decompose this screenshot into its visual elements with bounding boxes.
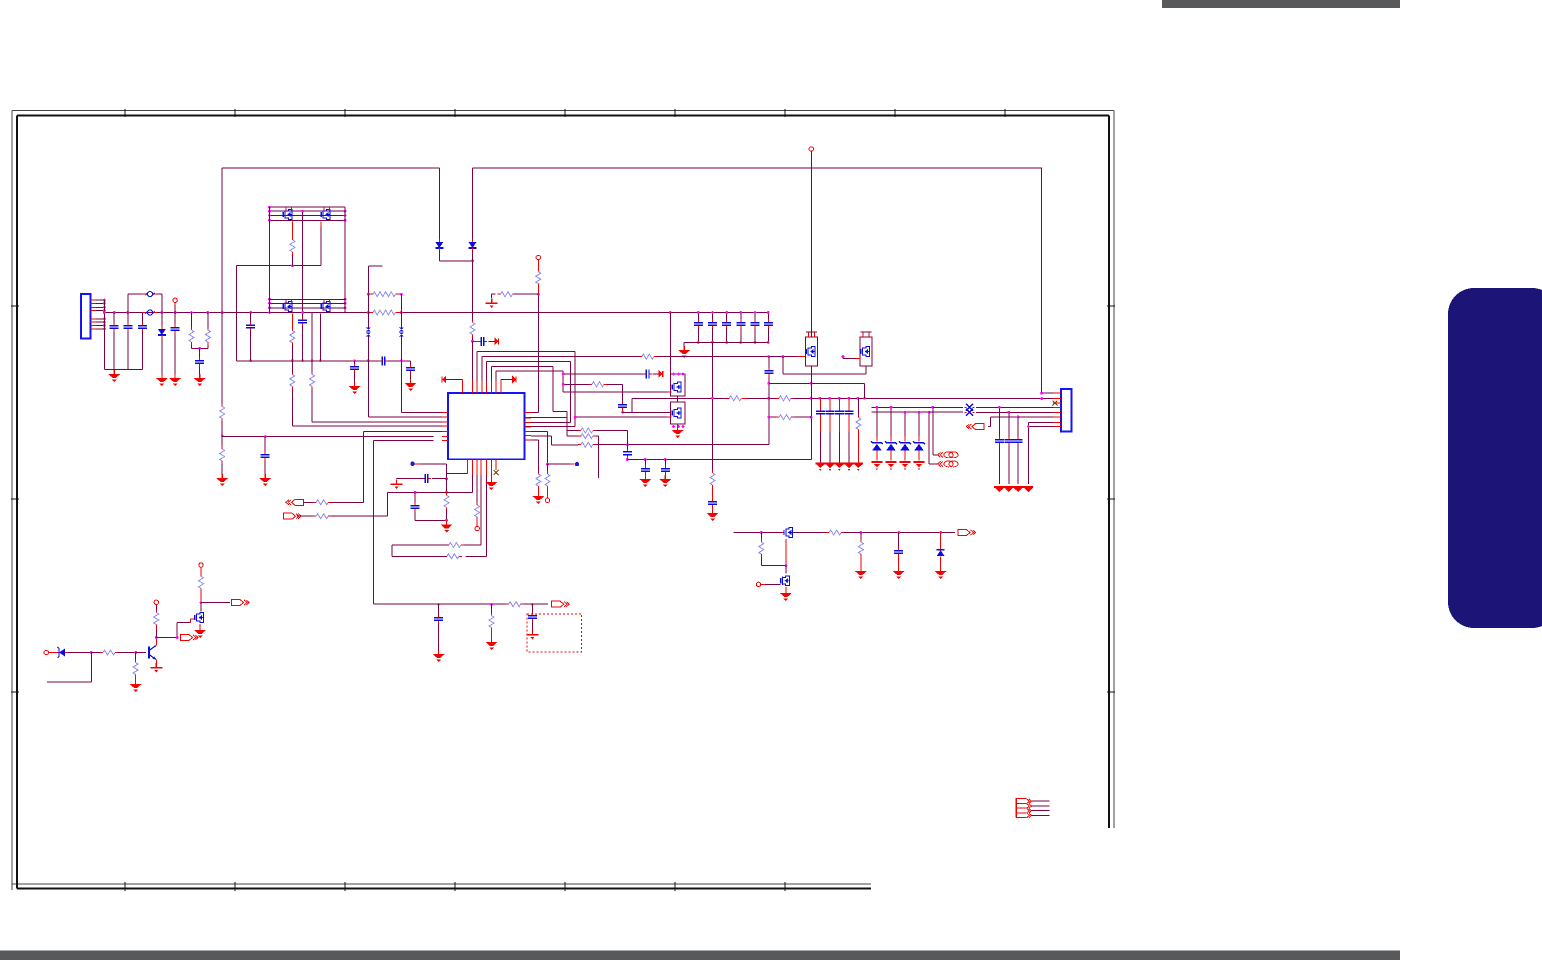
cap rail xyxy=(1008,412,1010,438)
wire xyxy=(860,533,862,540)
resistor R xyxy=(133,660,138,678)
wire xyxy=(761,557,786,566)
cap rail xyxy=(998,407,1000,438)
drain net xyxy=(201,602,230,604)
terminal right xyxy=(181,635,199,641)
junction xyxy=(626,458,629,461)
J1 pin bus xyxy=(103,300,105,369)
zener Z xyxy=(913,441,925,452)
wire xyxy=(768,377,770,399)
npn Q9 xyxy=(149,646,156,660)
lo-side bus xyxy=(270,307,346,309)
wire xyxy=(644,475,646,478)
wire xyxy=(940,533,942,549)
IC right pin xyxy=(525,411,532,413)
fet drain stubs xyxy=(286,207,330,210)
junctions xyxy=(301,210,304,314)
J2 pin xyxy=(1053,398,1061,400)
wire xyxy=(904,412,906,436)
wire xyxy=(495,459,497,470)
pin436 wire xyxy=(222,436,433,438)
no-connect x xyxy=(494,470,499,475)
wire xyxy=(876,436,878,442)
wire xyxy=(490,381,492,393)
res-cap line xyxy=(607,384,623,403)
wire xyxy=(808,332,810,337)
capacitor C xyxy=(618,402,627,411)
junction xyxy=(928,411,931,414)
IC right pin xyxy=(525,439,532,441)
wire xyxy=(481,381,483,393)
wire xyxy=(439,251,472,261)
capacitor C xyxy=(195,358,204,367)
fet drain stubs2 xyxy=(286,299,330,302)
long398 xyxy=(632,397,726,399)
wire xyxy=(250,313,252,325)
hi-side bus xyxy=(270,215,346,217)
pin435 wire xyxy=(531,436,578,445)
resistor R xyxy=(759,539,764,557)
wire xyxy=(199,367,201,375)
cap rail xyxy=(1017,417,1019,439)
wire xyxy=(155,630,157,638)
collector xyxy=(155,638,157,646)
pin472 wire xyxy=(387,475,472,516)
resistor R xyxy=(578,434,596,439)
nest wire xyxy=(490,367,492,381)
capacitor C xyxy=(422,474,431,483)
wire xyxy=(155,628,157,630)
wire xyxy=(96,302,104,304)
fuse F2 xyxy=(143,310,158,315)
IC left pin xyxy=(442,436,448,438)
cap627 wire xyxy=(626,458,628,460)
block outline R xyxy=(344,207,346,312)
wire xyxy=(644,460,646,468)
block outline L xyxy=(269,207,271,312)
pin439 wire xyxy=(531,440,538,471)
capacitor C xyxy=(845,408,854,417)
junction xyxy=(931,406,934,409)
wire xyxy=(697,313,699,322)
wire xyxy=(476,475,478,502)
wire xyxy=(754,329,756,343)
wire xyxy=(712,313,714,322)
terminal circle xyxy=(756,582,760,586)
ground xyxy=(486,638,498,650)
wire xyxy=(848,417,850,432)
mosfet Q6 xyxy=(672,408,681,418)
wire xyxy=(862,332,864,337)
junction xyxy=(785,564,788,567)
bead rail 1 xyxy=(367,294,369,327)
junction xyxy=(367,293,370,296)
capacitor C xyxy=(641,466,650,475)
wire xyxy=(297,515,313,517)
pin7 wire xyxy=(1029,422,1054,484)
wire xyxy=(697,329,699,343)
caps ground bar xyxy=(816,463,864,465)
J3 pin wire xyxy=(1032,800,1050,802)
resistor R xyxy=(100,650,118,655)
big loop top wire xyxy=(222,168,1041,393)
junction xyxy=(767,382,770,385)
fet pkg2 xyxy=(670,402,685,424)
J3 pin chevron xyxy=(1027,799,1032,803)
wire xyxy=(785,566,787,574)
wire xyxy=(492,294,496,298)
wire xyxy=(113,368,115,371)
resistor R xyxy=(639,354,657,359)
wire xyxy=(491,604,493,612)
wire xyxy=(302,326,304,361)
zline2 xyxy=(872,411,930,413)
wire xyxy=(918,412,920,436)
wire xyxy=(514,293,539,295)
resistor R2 xyxy=(726,396,744,401)
wire xyxy=(446,479,448,493)
wire xyxy=(250,331,252,361)
wire xyxy=(174,334,176,375)
wire xyxy=(291,361,293,372)
blue dot net2 xyxy=(410,462,414,466)
wire xyxy=(292,222,294,237)
wire xyxy=(802,356,806,358)
capacitor C bank xyxy=(708,320,717,329)
wire xyxy=(291,346,293,361)
mid bus xyxy=(236,360,379,362)
nest run4 xyxy=(491,367,567,418)
mosfet Q4 xyxy=(321,302,330,312)
resistor R xyxy=(290,371,295,389)
wire xyxy=(740,313,742,322)
cap bank top junctions xyxy=(697,311,770,314)
wire xyxy=(207,345,209,348)
ground row triangle xyxy=(1014,488,1022,492)
fet pkgQ8 xyxy=(860,337,872,366)
wire xyxy=(135,653,137,660)
J3 pin wire xyxy=(1032,814,1050,816)
capacitor C xyxy=(411,503,420,512)
wire xyxy=(473,340,479,342)
zener Z xyxy=(885,441,897,452)
wire xyxy=(669,313,671,375)
wire xyxy=(760,533,762,540)
v768 ext xyxy=(768,398,770,444)
wire xyxy=(940,559,942,569)
ground xyxy=(780,589,792,601)
capacitor C xyxy=(298,317,307,326)
junction xyxy=(471,340,474,343)
wire xyxy=(96,306,104,308)
wire xyxy=(570,463,575,465)
IC U1 xyxy=(448,393,525,459)
capacitor C xyxy=(816,408,825,417)
wire xyxy=(49,652,57,654)
wire xyxy=(829,398,831,410)
wire xyxy=(354,361,356,366)
wire xyxy=(156,637,177,639)
wire xyxy=(856,357,860,359)
mosfet Q8 xyxy=(861,347,870,357)
hi-side bus xyxy=(270,210,346,212)
IC left pin xyxy=(442,439,448,441)
cap bank gnd bus xyxy=(684,342,768,346)
wire xyxy=(761,583,765,585)
capacitor C xyxy=(528,613,537,622)
wire xyxy=(141,332,143,370)
resistor R xyxy=(545,471,550,489)
wire xyxy=(782,532,785,534)
capacitor C xyxy=(434,615,443,624)
junction xyxy=(1027,425,1030,428)
wire xyxy=(331,501,363,503)
IC left pin xyxy=(442,416,448,418)
resistor R xyxy=(536,471,541,489)
capacitor C xyxy=(643,369,652,378)
resistor R xyxy=(710,470,715,488)
ground xyxy=(194,626,206,638)
wire xyxy=(96,328,104,330)
wire xyxy=(904,436,906,442)
trunk 302 xyxy=(302,211,304,319)
wire xyxy=(91,652,100,654)
wire xyxy=(848,398,850,410)
wire xyxy=(434,411,443,413)
wire xyxy=(472,338,474,342)
wire xyxy=(838,398,840,410)
blue dot net xyxy=(575,462,579,466)
wire xyxy=(712,329,714,343)
line417 xyxy=(769,416,776,418)
terminal right xyxy=(552,601,570,607)
J3 pin wire xyxy=(1032,810,1050,812)
terminal right xyxy=(284,513,302,519)
wire xyxy=(857,398,859,414)
wire xyxy=(767,313,769,322)
junction xyxy=(471,260,474,263)
wire xyxy=(819,398,821,410)
J1 pin 1 xyxy=(91,299,97,301)
junction xyxy=(842,355,845,358)
resistor R xyxy=(290,328,295,346)
line417 xyxy=(794,416,811,418)
zener ground xyxy=(900,461,911,463)
wire xyxy=(677,396,679,402)
resistor R xyxy=(826,530,844,535)
Q8 gate xyxy=(843,355,856,358)
terminal circle xyxy=(536,255,540,259)
capacitor C xyxy=(171,325,180,334)
junction xyxy=(264,435,267,438)
zener ground xyxy=(871,461,882,463)
mid bus xyxy=(388,360,411,362)
wire xyxy=(890,451,892,461)
wire xyxy=(113,332,115,370)
mosfet M1 xyxy=(784,528,793,538)
ground xyxy=(672,426,684,438)
capacitor C xyxy=(708,499,717,508)
wire xyxy=(768,357,770,370)
junction xyxy=(155,636,158,639)
wire xyxy=(472,380,474,394)
resistor R xyxy=(313,514,331,519)
junction xyxy=(1017,416,1020,419)
mid bus junctions xyxy=(249,359,402,362)
junction xyxy=(400,293,403,296)
line459 junctions xyxy=(644,458,667,461)
wire xyxy=(898,557,900,570)
long398 junctions xyxy=(711,397,1043,400)
wire xyxy=(191,619,195,623)
line444 xyxy=(596,398,769,444)
cap rail xyxy=(998,446,1000,485)
wire xyxy=(392,544,449,546)
rail604 junctions xyxy=(437,603,534,606)
fet pkgQ7 xyxy=(806,337,818,366)
capacitor C xyxy=(894,548,903,557)
wire xyxy=(1053,398,1061,400)
wire xyxy=(96,310,104,312)
hi bus end dots xyxy=(268,206,346,222)
ground xyxy=(169,374,181,386)
diode D1 xyxy=(158,326,166,338)
nest run1 xyxy=(477,351,575,426)
junction xyxy=(810,416,813,419)
bead rail 2 xyxy=(400,294,402,327)
resistor R xyxy=(444,554,462,559)
wire xyxy=(174,303,176,306)
J1 pin 7 xyxy=(91,324,97,326)
res line430 xyxy=(567,430,578,432)
J3 pin wire xyxy=(1032,805,1050,807)
wire xyxy=(155,660,157,664)
res-cap line xyxy=(563,383,589,385)
resistor R xyxy=(776,396,794,401)
cap rail xyxy=(1008,446,1010,485)
terminal circle xyxy=(154,600,158,604)
wire xyxy=(461,380,463,394)
resistor R xyxy=(220,446,225,464)
frame inner border xyxy=(17,116,1109,889)
wire xyxy=(367,266,369,294)
capacitor C xyxy=(835,408,844,417)
wire xyxy=(434,416,443,418)
wire xyxy=(96,324,104,326)
resistor R xyxy=(578,442,596,447)
ground xyxy=(639,475,651,487)
wire xyxy=(414,492,416,504)
lo bus end dots xyxy=(268,298,346,314)
mosfet M2 xyxy=(781,576,790,586)
wire xyxy=(434,421,443,423)
wire xyxy=(810,366,812,460)
coil feed2 xyxy=(929,412,939,464)
wire xyxy=(797,356,802,358)
wire xyxy=(547,464,549,471)
wire xyxy=(96,299,104,301)
rail532b xyxy=(793,532,826,534)
junction xyxy=(176,636,179,639)
res line436 xyxy=(596,436,599,478)
ground xyxy=(532,492,544,504)
wire xyxy=(898,533,900,550)
wire xyxy=(491,631,493,638)
gate1 line xyxy=(563,391,667,393)
wire xyxy=(740,329,742,343)
terminal left xyxy=(966,424,984,430)
zline2b xyxy=(929,411,963,413)
wire xyxy=(161,338,163,374)
mosfet Q5 xyxy=(672,382,681,392)
wire xyxy=(664,475,666,478)
resistor R xyxy=(220,404,225,422)
cap bank bottom junctions xyxy=(697,341,770,344)
wire xyxy=(712,508,714,512)
wire xyxy=(127,332,129,370)
ground xyxy=(405,379,417,391)
resistor R wide2 xyxy=(373,310,395,315)
wire xyxy=(118,652,136,654)
J1 pin junctions xyxy=(103,299,106,330)
resistor R xyxy=(310,371,315,389)
IC right pin xyxy=(525,435,532,437)
wire xyxy=(368,293,373,295)
ground xyxy=(433,650,445,662)
ground flat xyxy=(150,663,162,673)
line383 xyxy=(769,383,865,398)
wire xyxy=(415,512,446,521)
resistor R xyxy=(154,610,159,628)
main +V rail xyxy=(104,312,368,314)
wire xyxy=(537,489,539,492)
gnd bus xyxy=(104,368,142,370)
ground row triangle xyxy=(995,488,1003,492)
wire xyxy=(174,305,176,313)
IC left pin xyxy=(442,411,448,413)
wire xyxy=(320,227,322,266)
zline1 xyxy=(872,406,933,408)
line374 xyxy=(783,357,866,374)
ground xyxy=(130,680,142,692)
wire xyxy=(438,624,440,651)
capacitor C bank xyxy=(694,320,703,329)
wire xyxy=(452,379,462,381)
lo-side bus4 xyxy=(270,312,346,314)
rail604 xyxy=(374,603,506,605)
junction xyxy=(445,477,448,480)
line459 xyxy=(627,459,811,461)
zener ground xyxy=(886,461,897,463)
wire xyxy=(838,432,840,463)
nest wire xyxy=(486,362,488,381)
junction xyxy=(767,416,770,419)
J2 pin xyxy=(1053,411,1061,413)
IC left pin xyxy=(442,425,448,427)
ground xyxy=(935,567,947,579)
wire xyxy=(754,313,756,322)
wire xyxy=(471,459,473,475)
rail604 xyxy=(524,603,548,605)
diode D2 xyxy=(435,239,443,251)
capacitor C xyxy=(350,364,359,373)
ground xyxy=(678,346,690,358)
wire xyxy=(472,380,474,394)
resistor R xyxy=(475,502,480,520)
wire xyxy=(446,510,448,520)
wire xyxy=(200,603,202,612)
capacitor C xyxy=(1014,437,1023,446)
